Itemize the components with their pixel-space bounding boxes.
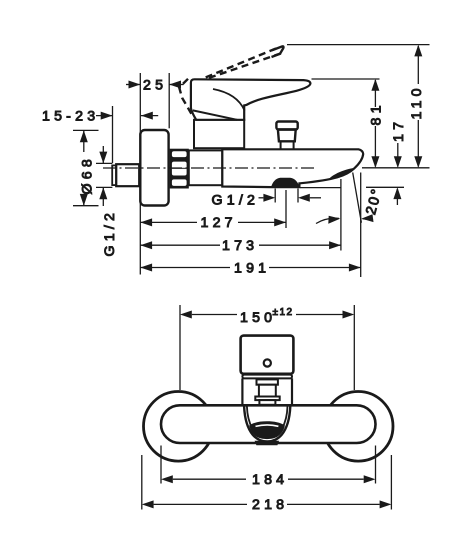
escutcheon (side view)	[140, 130, 168, 206]
dim Ø68 (escutcheon diameter)	[73, 130, 99, 205]
svg-text:191: 191	[234, 260, 270, 276]
dim 81	[374, 80, 376, 167]
dim 20 degrees spout angle	[316, 173, 373, 224]
dim 218 (overall width)	[142, 455, 392, 510]
svg-text:G1/2: G1/2	[102, 209, 118, 257]
faucet body with spout (side view)	[222, 149, 363, 187]
left escutcheon circle (front view)	[144, 392, 214, 462]
ref line for 81 (handle top)	[312, 78, 380, 80]
svg-text:Ø68: Ø68	[79, 155, 95, 194]
centerline of faucet axis (side view)	[103, 167, 316, 169]
svg-text:150: 150	[240, 310, 276, 326]
handle raised position (dashed)	[206, 48, 278, 78]
handle lip	[242, 375, 292, 379]
diverter knob (side view)	[276, 122, 297, 149]
cartridge cover sides	[242, 378, 292, 405]
wall plane line	[139, 73, 141, 275]
dim 191 (total depth)	[140, 173, 360, 278]
dim 127 (aerator center)	[140, 190, 286, 228]
dim 150 +/-12 (connection centers)	[180, 305, 354, 390]
dim 15-23 (wall depth adjust)	[96, 106, 158, 163]
handle crease curve	[213, 89, 245, 111]
svg-text:184: 184	[252, 472, 288, 488]
spout outer curve (front view)	[244, 406, 290, 441]
dim 25 (escutcheon depth)	[126, 84, 184, 86]
dim 184 (body length)	[161, 446, 376, 484]
svg-text:±12: ±12	[273, 307, 294, 318]
spout lip crescent (filled)	[329, 168, 355, 179]
ref line spout outlet plane	[366, 186, 404, 188]
union nut (knurled, side view)	[170, 149, 189, 189]
svg-text:G1/2: G1/2	[212, 193, 260, 209]
cartridge column under handle (side view)	[194, 120, 244, 148]
escutcheon front extension line	[168, 73, 170, 128]
svg-text:110: 110	[409, 84, 425, 119]
body (front view, stadium)	[161, 405, 376, 443]
svg-text:81: 81	[368, 101, 384, 125]
right escutcheon circle (front view)	[323, 392, 393, 462]
bowl highlight	[256, 425, 279, 426]
cartridge stack	[255, 379, 279, 404]
dim 110	[417, 46, 419, 167]
dim G1/2 (aerator)	[259, 189, 322, 203]
handle skirt bottom edge	[193, 110, 237, 119]
spout inner curve	[247, 406, 252, 428]
nipple G1/2 wall connection	[112, 164, 139, 186]
svg-text:218: 218	[252, 497, 288, 513]
svg-text:17: 17	[391, 118, 407, 142]
handle (front view)	[241, 336, 294, 374]
svg-text:25: 25	[143, 78, 167, 94]
aerator dome (filled)	[271, 178, 299, 188]
svg-text:127: 127	[201, 215, 237, 231]
handle dot indicator	[264, 359, 271, 366]
svg-text:15-23: 15-23	[42, 109, 99, 125]
dim 17	[396, 143, 398, 205]
dashed lever tip (solid corner)	[272, 46, 284, 57]
aerator outlet plane line	[300, 187, 341, 189]
svg-text:173: 173	[222, 238, 258, 254]
body inlet connector (side view)	[189, 150, 223, 185]
spout foot tab (filled)	[255, 441, 280, 446]
dim 173 (spout reach)	[140, 179, 341, 251]
dim G1/2 (wall thread)	[96, 146, 112, 206]
ref line for 110 (raised handle top)	[287, 44, 430, 46]
handle lever (side view, solid)	[191, 79, 311, 120]
spout opening bowl (filled)	[249, 421, 285, 439]
